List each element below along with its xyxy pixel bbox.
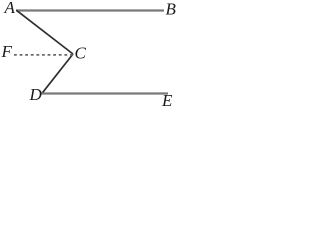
wire: dashed ray FC (14, 54, 73, 56)
wire: line AB (top horizontal) (16, 9, 164, 11)
svg-text:F: F (1, 42, 13, 61)
wire: segment AC (diagonal) (16, 10, 73, 54)
wire: segment CD (diagonal) (42, 54, 73, 93)
svg-text:B: B (166, 0, 177, 19)
svg-text:E: E (161, 91, 173, 107)
svg-text:C: C (75, 44, 87, 63)
svg-text:D: D (29, 85, 43, 104)
svg-text:A: A (4, 0, 16, 17)
wire: line DE (bottom horizontal) (41, 92, 168, 94)
